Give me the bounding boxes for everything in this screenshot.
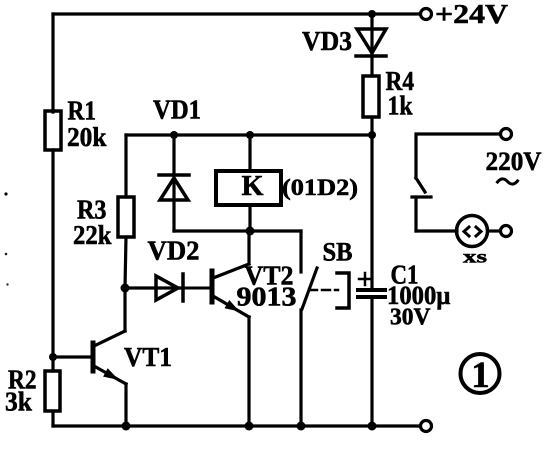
wire K top lead <box>248 135 251 171</box>
node VT1 base junction <box>49 353 57 361</box>
svg-text:SB: SB <box>323 238 353 267</box>
wire R2 to bottom rail <box>51 411 54 426</box>
svg-text:K: K <box>242 170 264 202</box>
svg-text:9013: 9013 <box>237 282 297 312</box>
node C1 / bottom rail <box>368 422 377 431</box>
wire K bottom lead <box>248 205 251 231</box>
transistor VT2 <box>212 231 249 426</box>
capacitor C1 <box>358 290 385 297</box>
node VT2 emitter / bottom rail <box>245 422 254 431</box>
resistor R3 <box>118 197 134 237</box>
terminal +24V <box>421 9 432 20</box>
node VT1 emitter / bottom rail <box>122 422 131 431</box>
tilde under 220V <box>498 179 518 184</box>
node VD1 top junction <box>170 131 178 139</box>
wire node line A <box>126 133 372 136</box>
resistor R4 <box>363 76 379 117</box>
svg-text:VD3: VD3 <box>302 26 352 56</box>
wire C1 bottom lead <box>370 297 373 426</box>
svg-text:220V: 220V <box>486 147 542 176</box>
figure number circle 1 <box>461 354 500 393</box>
diode VD1 <box>159 175 189 200</box>
wire C1 top lead <box>370 135 373 289</box>
svg-text:30V: 30V <box>390 305 431 331</box>
socket XS <box>457 216 488 247</box>
terminal 220V bottom <box>501 226 512 237</box>
svg-text:3k: 3k <box>5 387 32 417</box>
node VD2/VT1 junction <box>121 284 130 293</box>
wire VD1 top lead <box>172 135 175 231</box>
wire 220V top to contact <box>416 134 500 178</box>
svg-text:20k: 20k <box>67 122 107 152</box>
node top rail / VD3 junction <box>368 10 376 18</box>
svg-text:1: 1 <box>471 355 490 396</box>
svg-text:VD1: VD1 <box>153 95 201 125</box>
relay K <box>216 171 281 205</box>
scan speck <box>4 192 7 195</box>
wire left rail upper <box>51 14 54 112</box>
svg-text:xs: xs <box>463 247 487 267</box>
svg-text:VT1: VT1 <box>124 342 172 372</box>
diode VD2 <box>125 274 210 301</box>
node K/VT2 junction <box>246 227 255 236</box>
terminal 220V top <box>501 129 512 140</box>
resistor R2 <box>45 371 60 411</box>
resistor R1 <box>45 111 61 150</box>
switch SB <box>301 231 349 426</box>
terminal bottom right <box>421 421 432 432</box>
wire contact to socket <box>416 229 457 232</box>
relay contact K <box>412 178 431 231</box>
node K top junction <box>246 131 254 139</box>
wire left rail middle <box>51 150 54 371</box>
transistor VT1 <box>53 288 126 426</box>
wire socket to terminal <box>488 229 500 232</box>
svg-text:R1: R1 <box>68 96 97 126</box>
wire top rail <box>53 12 418 15</box>
svg-text:1k: 1k <box>388 91 413 121</box>
node R4 junction <box>368 131 376 139</box>
wire R4 to node line <box>370 117 373 135</box>
wire R3 top lead <box>124 135 127 197</box>
svg-text:VD2: VD2 <box>148 236 200 266</box>
wire R3 to VD2 junction <box>125 237 126 288</box>
wire VD3 to R4 <box>370 56 373 76</box>
svg-text:+24V: +24V <box>435 0 509 29</box>
wire bottom rail <box>53 424 420 427</box>
wire node line B <box>174 229 301 232</box>
capacitor C1 plus sign <box>359 273 371 285</box>
svg-text:22k: 22k <box>73 220 112 250</box>
diode VD3 <box>356 29 386 56</box>
svg-text:(01D2): (01D2) <box>282 175 358 200</box>
node SB / bottom rail <box>297 422 306 431</box>
wire VD3 top lead <box>370 14 373 56</box>
